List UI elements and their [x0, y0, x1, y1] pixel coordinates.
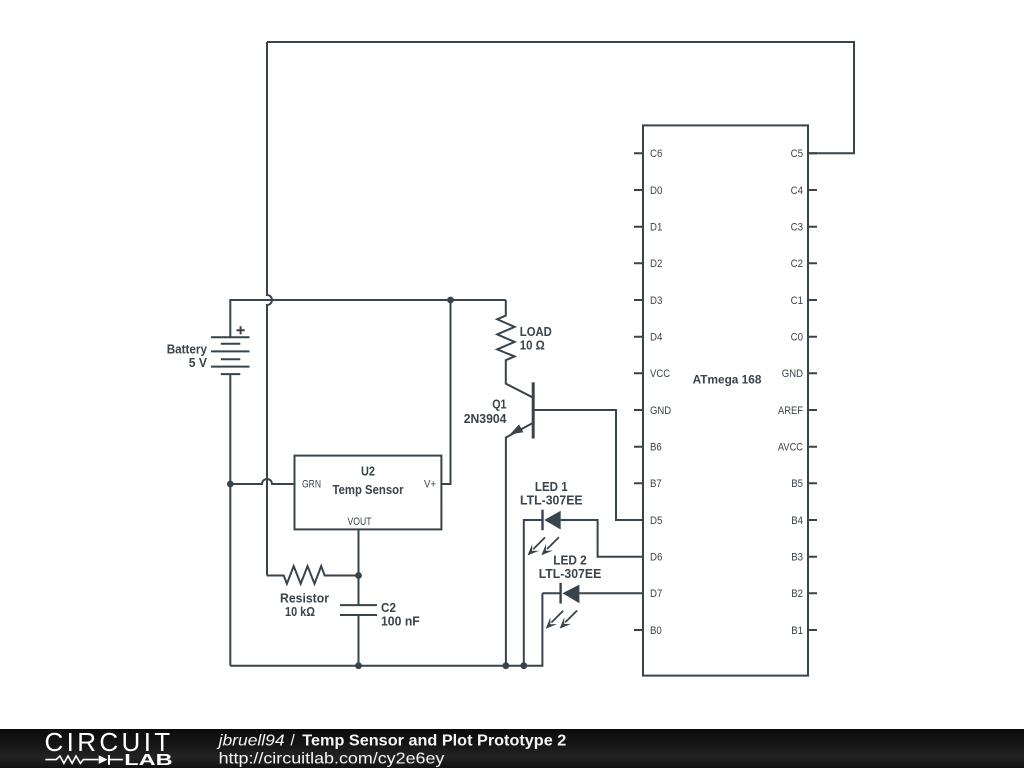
svg-text:GND: GND [650, 405, 671, 417]
svg-text:V+: V+ [424, 479, 436, 491]
svg-text:Battery: Battery [167, 343, 207, 357]
svg-text:Temp Sensor and Plot Prototype: Temp Sensor and Plot Prototype 2 [302, 732, 566, 749]
svg-text:5 V: 5 V [189, 356, 208, 370]
svg-text:B5: B5 [791, 478, 803, 490]
svg-text:C4: C4 [791, 185, 803, 197]
svg-text:LED 2: LED 2 [553, 554, 587, 568]
svg-text:/: / [290, 732, 295, 749]
svg-text:2N3904: 2N3904 [464, 412, 507, 426]
svg-text:B2: B2 [791, 588, 803, 600]
svg-text:C5: C5 [791, 148, 803, 160]
svg-text:D0: D0 [650, 185, 662, 197]
svg-text:U2: U2 [361, 465, 375, 479]
svg-text:C6: C6 [650, 148, 662, 160]
svg-text:GND: GND [782, 368, 803, 380]
svg-text:LED 1: LED 1 [535, 480, 568, 494]
svg-text:LOAD: LOAD [520, 325, 552, 339]
svg-text:LTL-307EE: LTL-307EE [520, 494, 583, 508]
svg-text:D6: D6 [650, 552, 662, 564]
svg-text:10 Ω: 10 Ω [520, 339, 545, 353]
svg-text:D5: D5 [650, 515, 662, 527]
svg-text:D4: D4 [650, 332, 662, 344]
svg-text:D2: D2 [650, 258, 662, 270]
svg-text:http://circuitlab.com/cy2e6ey: http://circuitlab.com/cy2e6ey [219, 750, 445, 767]
svg-text:100 nF: 100 nF [381, 615, 420, 629]
svg-text:ATmega 168: ATmega 168 [693, 373, 762, 387]
svg-text:B0: B0 [650, 625, 662, 637]
svg-text:B3: B3 [791, 552, 803, 564]
svg-text:D1: D1 [650, 222, 662, 234]
svg-text:B4: B4 [791, 515, 803, 527]
svg-text:Q1: Q1 [492, 398, 506, 412]
svg-text:VCC: VCC [650, 368, 670, 380]
svg-text:D7: D7 [650, 588, 662, 600]
svg-text:Temp Sensor: Temp Sensor [333, 483, 404, 497]
svg-text:C3: C3 [791, 222, 803, 234]
svg-text:10 kΩ: 10 kΩ [285, 605, 315, 619]
svg-text:AREF: AREF [778, 405, 803, 417]
svg-text:B1: B1 [791, 625, 803, 637]
svg-text:B6: B6 [650, 442, 662, 454]
svg-text:C1: C1 [791, 295, 803, 307]
svg-text:C2: C2 [381, 601, 396, 615]
svg-text:B7: B7 [650, 478, 662, 490]
svg-text:VOUT: VOUT [348, 516, 372, 528]
svg-text:GRN: GRN [302, 479, 321, 491]
svg-text:LAB: LAB [124, 752, 172, 768]
svg-text:C2: C2 [791, 258, 803, 270]
svg-text:jbruell94: jbruell94 [216, 732, 284, 749]
svg-text:D3: D3 [650, 295, 662, 307]
svg-text:AVCC: AVCC [778, 442, 803, 454]
svg-text:LTL-307EE: LTL-307EE [539, 567, 602, 581]
svg-text:Resistor: Resistor [280, 591, 329, 605]
svg-text:C0: C0 [791, 332, 803, 344]
